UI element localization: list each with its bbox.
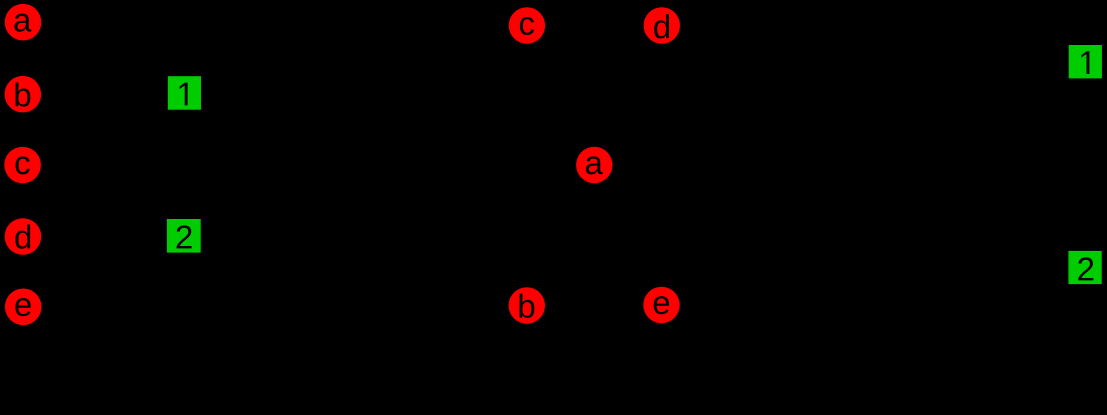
node b (left column): label "b" — [15, 82, 30, 106]
node a (middle graph): red circle — [576, 147, 612, 183]
node c (middle graph): red circle — [509, 7, 545, 43]
node a (left column): red circle — [5, 4, 42, 41]
node d (left column): red circle — [5, 218, 42, 255]
node a (middle graph): label "a" — [586, 156, 603, 174]
factor 1 (right): green square — [1069, 45, 1102, 78]
factor 2 (right): green square — [1068, 251, 1101, 284]
node e (left column): label "e" — [15, 298, 30, 316]
factor 2 (left): label "2" — [177, 225, 192, 248]
factor 2 (left): green square — [167, 219, 201, 253]
node e (left column): red circle — [5, 289, 42, 326]
node b (middle graph): label "b" — [519, 294, 534, 318]
node b (left column): red circle — [5, 76, 42, 113]
node d (middle graph): red circle — [644, 7, 680, 43]
node c (middle graph): label "c" — [520, 17, 534, 35]
node d (middle graph): label "d" — [654, 14, 669, 38]
node c (left column): red circle — [4, 147, 41, 184]
node e (middle graph): label "e" — [654, 296, 669, 314]
factor 2 (right): label "2" — [1078, 257, 1093, 280]
node d (left column): label "d" — [15, 224, 30, 248]
node e (middle graph): red circle — [643, 287, 679, 323]
factor 1 (left): label "1" — [180, 83, 188, 106]
node b (middle graph): red circle — [509, 287, 545, 323]
factor 1 (right): label "1" — [1081, 51, 1089, 74]
factor 1 (left): green square — [168, 76, 201, 110]
node a (left column): label "a" — [14, 14, 31, 32]
node c (left column): label "c" — [16, 156, 30, 174]
